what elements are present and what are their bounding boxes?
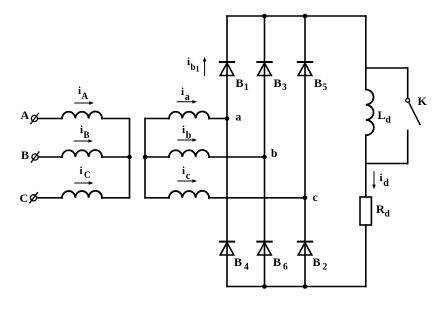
terminal A	[31, 113, 39, 123]
svg-text:B: B	[84, 130, 90, 140]
diode B1	[220, 62, 234, 76]
svg-text:B: B	[21, 148, 29, 162]
primary winding A	[62, 112, 102, 119]
current arrow i_b	[178, 138, 197, 142]
secondary winding b	[169, 150, 209, 157]
current arrow i_B	[74, 139, 93, 143]
junction dot bottom leg3	[303, 284, 308, 289]
svg-text:3: 3	[282, 83, 287, 93]
svg-text:a: a	[236, 112, 242, 124]
junction dot top leg3	[303, 14, 308, 19]
bridge leg 3 wire	[304, 16, 306, 287]
diode B6	[257, 242, 271, 255]
svg-text:c: c	[186, 171, 191, 182]
svg-text:d: d	[385, 210, 391, 220]
wire B to neutral bus	[102, 156, 130, 158]
wire c left	[145, 197, 169, 199]
wire a left	[145, 118, 169, 120]
svg-text:C: C	[84, 170, 91, 180]
right vertical wire upper	[365, 16, 367, 90]
wire b to leg 2	[209, 156, 265, 158]
label Ld	[378, 108, 392, 126]
svg-text:i: i	[182, 124, 185, 136]
wire A to neutral bus	[102, 118, 130, 120]
node a dot	[225, 116, 230, 121]
label Rd	[376, 202, 391, 220]
junction dot bottom leg2	[262, 284, 267, 289]
svg-text:d: d	[386, 116, 392, 126]
top bus wire	[227, 15, 366, 17]
wire a to leg 1	[209, 118, 227, 120]
current arrow i_b1	[203, 57, 207, 76]
label B6	[273, 255, 288, 273]
label B4	[234, 255, 249, 273]
svg-text:i: i	[380, 172, 383, 184]
svg-text:B: B	[273, 255, 281, 269]
current arrow i_C	[75, 181, 94, 185]
diode B5	[298, 62, 312, 76]
bridge leg 2 wire	[264, 16, 266, 287]
wire A	[38, 118, 62, 120]
current label i_d	[380, 172, 390, 189]
svg-text:6: 6	[283, 263, 288, 273]
label B2	[313, 255, 328, 273]
svg-text:5: 5	[323, 83, 328, 93]
junction dot top leg2	[262, 14, 267, 19]
svg-text:d: d	[383, 178, 389, 189]
terminal B	[31, 152, 39, 162]
svg-text:1: 1	[244, 83, 249, 93]
svg-text:A: A	[82, 91, 89, 101]
bottom bus wire	[227, 286, 366, 288]
svg-text:2: 2	[323, 263, 328, 273]
node c dot	[303, 196, 308, 201]
switch K	[406, 68, 420, 164]
resistor Rd	[360, 197, 371, 225]
primary winding C	[62, 191, 102, 198]
junction dot secondary neutral	[143, 155, 148, 160]
junction dot primary neutral	[127, 155, 132, 160]
wire b left	[145, 156, 169, 158]
svg-text:i: i	[182, 165, 185, 177]
label B1	[236, 76, 250, 93]
label B3	[274, 76, 288, 93]
wire B	[39, 156, 63, 158]
svg-text:i: i	[181, 86, 184, 98]
wire parallel bottom	[366, 163, 408, 165]
bridge leg 1 wire	[226, 16, 228, 287]
svg-text:B: B	[274, 76, 282, 90]
secondary neutral bus	[144, 119, 146, 198]
current label i_c	[182, 165, 191, 182]
secondary winding a	[169, 112, 209, 119]
right vertical wire mid	[365, 135, 367, 197]
diode B3	[257, 62, 271, 76]
svg-text:B: B	[236, 76, 244, 90]
svg-text:B: B	[314, 76, 322, 90]
svg-text:L: L	[378, 108, 386, 122]
svg-text:4: 4	[244, 263, 249, 273]
current arrow i_d	[372, 172, 376, 190]
current label i_A	[78, 85, 89, 101]
svg-text:C: C	[20, 191, 29, 205]
current label i_b	[182, 124, 192, 141]
terminal C	[30, 193, 38, 203]
wire c to leg 3	[209, 197, 305, 199]
secondary winding c	[169, 191, 209, 198]
svg-text:a: a	[185, 92, 190, 103]
svg-text:B: B	[234, 255, 242, 269]
svg-text:i: i	[80, 165, 83, 177]
current arrow i_A	[75, 101, 94, 105]
wire parallel top	[366, 67, 408, 69]
wire C	[37, 197, 62, 199]
node b dot	[262, 155, 267, 160]
svg-text:b: b	[271, 148, 277, 160]
svg-text:B: B	[313, 255, 321, 269]
label B5	[314, 76, 328, 93]
svg-text:K: K	[418, 94, 428, 108]
current arrow i_c	[178, 179, 197, 183]
current label i_a	[181, 86, 190, 103]
right vertical wire lower	[365, 225, 367, 287]
current label i_B	[80, 124, 90, 140]
svg-text:A: A	[21, 108, 30, 122]
current label i_b1	[187, 56, 200, 74]
svg-text:c: c	[313, 192, 318, 204]
current label i_C	[80, 165, 91, 180]
primary winding B	[62, 150, 102, 157]
diode B4	[220, 242, 234, 255]
primary neutral bus	[129, 119, 131, 198]
inductor Ld	[366, 90, 374, 136]
current arrow i_a	[177, 100, 197, 104]
svg-text:1: 1	[196, 65, 200, 74]
diode B2	[298, 242, 312, 255]
wire C to neutral bus	[102, 197, 130, 199]
